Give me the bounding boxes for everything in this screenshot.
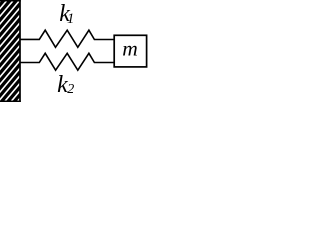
spring k1 (top) bbox=[20, 30, 115, 47]
svg-text:m: m bbox=[122, 37, 138, 61]
svg-text:1: 1 bbox=[67, 11, 74, 27]
wall edge line bbox=[19, 0, 21, 102]
wall (fixed support) hatching bbox=[0, 0, 112, 107]
wall top border bbox=[0, 0, 21, 2]
spring k2 (bottom) bbox=[20, 53, 115, 70]
wall bottom border bbox=[0, 100, 21, 102]
background bbox=[0, 0, 150, 102]
svg-text:2: 2 bbox=[67, 82, 74, 97]
mass box bbox=[114, 35, 146, 67]
